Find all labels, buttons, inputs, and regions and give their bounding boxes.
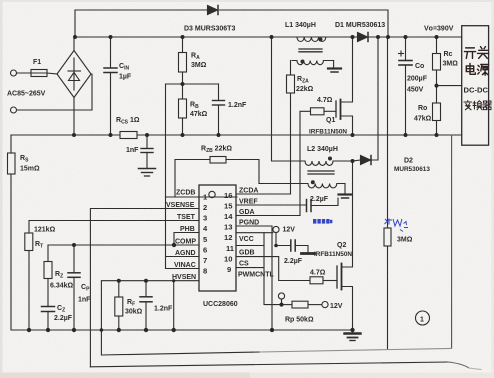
wire VCC pin12 ladder rung: [237, 232, 273, 234]
node L2 ZCD phase dot: [311, 180, 315, 184]
char yuan: [477, 64, 488, 75]
ground symbol for L1 ZCD winding: [328, 61, 341, 73]
capacitor Co 200uF 450V: [399, 37, 413, 135]
wire COMP pin5 network line: [48, 245, 199, 262]
wire GDA pin14 to Q1 gate resistor: [237, 111, 311, 215]
blue watermark small: [313, 219, 332, 224]
pin name labels right: [238, 188, 274, 279]
char kai: [464, 48, 475, 59]
wire sense line B along bottom: [90, 362, 481, 370]
capacitor 1.2nF beside RB: [213, 84, 225, 135]
resistor 4.7ohm Q2 gate: [310, 277, 337, 284]
wire ZCDA pin16 stub: [237, 193, 291, 195]
wire TSET pin3 to RT: [29, 221, 199, 234]
capacitor 1nF on return line with ground: [141, 135, 153, 168]
pin 1 marker circle: [209, 191, 215, 197]
terminal 12V at Rp: [322, 302, 328, 308]
pin name labels left: [166, 190, 196, 282]
resistor RZB 22k: [166, 157, 260, 198]
L1 core bars: [299, 49, 322, 52]
diode D3: [208, 6, 219, 15]
wire VINAC pin7: [166, 268, 200, 270]
resistor RF 30k: [115, 281, 123, 330]
ground symbol main at Q2 source: [345, 330, 361, 341]
wire PGND pin13 to ground rail: [237, 226, 272, 330]
more sections appended below: [166, 26, 489, 349]
blue watermark han W: [385, 219, 409, 232]
resistor 4.7ohm Q1 gate: [311, 108, 337, 115]
wire VSENSE pin2 to output sense line: [90, 209, 199, 367]
resistor RZ 6.34k: [44, 262, 52, 307]
capacitor 2.2uF on VCC: [276, 240, 308, 252]
capacitor 1.2nF beside RF: [140, 281, 152, 330]
fuse F1: [31, 70, 58, 77]
capacitor CZ 2.2uF: [42, 307, 55, 331]
ground bar for VCC bypass: [302, 252, 315, 255]
wire GDB pin11 ladder and to Q2 gate: [237, 246, 310, 281]
wire RZA to ZCDA pin16: [237, 93, 291, 194]
text DC-DC: [464, 86, 489, 95]
wire CS pin10 ladder bottom to Rp node: [237, 268, 282, 305]
resistor Ro 47k: [433, 103, 441, 135]
resistor Rp 50k: [282, 301, 323, 308]
capacitor CIN 1uF: [104, 37, 117, 135]
pin numbers inside IC: [203, 191, 235, 276]
char dian: [466, 64, 475, 75]
wire stage link line A: [101, 330, 451, 355]
resistor Rs 15mohm in left leg: [8, 135, 16, 330]
wire HVSEN drop to ground rail: [173, 281, 175, 330]
inductor L2 ZCD winding: [259, 184, 345, 188]
ground symbol below 1nF: [139, 169, 156, 177]
resistor Rc 3M: [433, 37, 441, 70]
value and reference labels: [7, 22, 458, 324]
transistor Q1 IRFB11N50N: [336, 37, 353, 135]
char bian: [464, 101, 472, 110]
wire return line (current sense rail): [11, 134, 462, 136]
char qi: [483, 101, 492, 110]
inductor L2 340uH main winding: [305, 161, 352, 165]
terminal 12V VCC: [273, 226, 279, 245]
capacitor 2.2uF on VREF: [307, 198, 339, 212]
resistor Rcs 1ohm: [120, 132, 137, 139]
L2 core bars: [308, 171, 334, 174]
DC-DC converter box: [462, 26, 489, 146]
wire PHB pin4 tied to COMP: [174, 233, 199, 246]
resistor RB 47k: [179, 84, 187, 135]
terminal AC input top: [11, 70, 32, 76]
char huan: [473, 101, 482, 110]
wire Rc-Ro junction to DCDC box: [437, 70, 462, 103]
resistor RT 121k: [25, 233, 33, 330]
wire RA-RB junction to VINAC column: [166, 84, 219, 269]
diode D1: [358, 33, 369, 42]
resistor RZA 22k: [287, 61, 295, 94]
terminal AC input bottom: [11, 74, 93, 113]
wire VREF pin15 with bypass: [237, 204, 306, 206]
ground symbol for L2 ZCD winding: [339, 184, 352, 199]
wire top rail1 with D3 bypass: [75, 10, 388, 37]
inductor L1 340uH main winding: [297, 37, 326, 42]
char guan: [477, 47, 488, 59]
diode D2: [353, 37, 379, 165]
inductor L1 ZCD winding: [292, 61, 334, 65]
DC-DC box Chinese text (drawn strokes): [464, 47, 492, 110]
circled 1 marker: [416, 311, 430, 325]
wire AGND pin6: [166, 256, 200, 258]
resistor 3M to second stage: [384, 37, 391, 349]
bridge rectifier: [57, 37, 91, 135]
wire GDA pin14 stub: [237, 215, 241, 217]
node L2 phase dot: [328, 157, 332, 161]
wire second stage sense drop: [451, 135, 453, 348]
resistor RA 3M: [179, 37, 187, 84]
node L1 ZCD phase dot: [301, 60, 305, 64]
node L1 phase dot: [319, 38, 323, 42]
wire L2 feed from bus: [272, 37, 306, 161]
wire bottom ground rail: [11, 329, 353, 331]
wire rail2 rectified DC bus: [75, 36, 462, 38]
op-amp U1 UCC28060 IC body: [199, 185, 236, 291]
wire ladder vertical: [263, 233, 265, 268]
capacitor CP 1nF: [68, 245, 80, 330]
terminal test point above Rp node: [278, 293, 284, 305]
transistor Q2 IRFB11N50N: [337, 161, 353, 330]
wire HVSEN pin8 network line: [101, 281, 199, 330]
